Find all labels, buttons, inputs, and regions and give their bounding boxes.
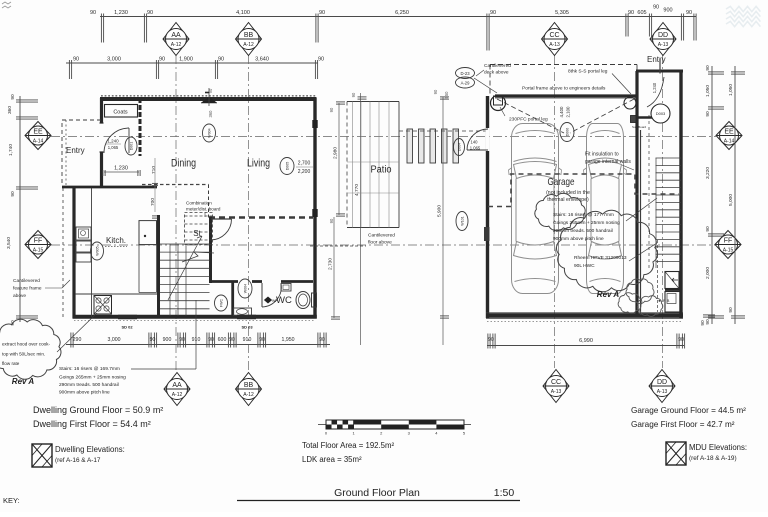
top wall load marker bbox=[201, 97, 217, 103]
svg-text:W005: W005 bbox=[96, 246, 100, 255]
stair note leaders bbox=[626, 198, 657, 221]
svg-text:2,700: 2,700 bbox=[298, 161, 311, 167]
svg-text:KEY:: KEY: bbox=[3, 496, 20, 505]
scale bar bbox=[318, 424, 471, 426]
svg-text:4,100: 4,100 bbox=[236, 10, 250, 16]
svg-text:MDU Elevations:: MDU Elevations: bbox=[689, 443, 747, 452]
svg-text:900: 900 bbox=[663, 8, 672, 14]
svg-text:deck above: deck above bbox=[484, 70, 509, 76]
dim 4770 bbox=[360, 93, 362, 345]
svg-text:meter/dist. board: meter/dist. board bbox=[186, 207, 221, 212]
car 1 bbox=[509, 124, 562, 294]
section line CC vertical bbox=[554, 55, 556, 368]
svg-text:D005: D005 bbox=[286, 162, 290, 171]
garage top right wall bbox=[636, 70, 683, 73]
section marker CC bottom bbox=[543, 370, 569, 403]
door tag 2 bbox=[237, 315, 256, 320]
svg-text:AA: AA bbox=[172, 382, 182, 389]
svg-text:90: 90 bbox=[208, 337, 214, 343]
svg-text:1:50: 1:50 bbox=[494, 487, 515, 499]
svg-text:90: 90 bbox=[259, 337, 265, 343]
svg-text:550: 550 bbox=[444, 91, 449, 99]
svg-text:DD: DD bbox=[657, 379, 667, 386]
dwelling top wall bbox=[100, 97, 317, 101]
detail circles D-23 A-29 bbox=[456, 68, 475, 79]
svg-text:90: 90 bbox=[90, 10, 96, 16]
garage wall pier bbox=[484, 227, 490, 241]
svg-text:Living: Living bbox=[247, 158, 270, 170]
door label D001 bbox=[125, 137, 137, 155]
svg-text:6,250: 6,250 bbox=[395, 10, 409, 16]
dwelling elevations legend bbox=[32, 444, 52, 467]
svg-text:A-12: A-12 bbox=[171, 42, 182, 48]
walkway bars bbox=[407, 129, 413, 163]
svg-text:90: 90 bbox=[488, 337, 494, 343]
svg-text:D006: D006 bbox=[566, 128, 570, 137]
svg-text:600: 600 bbox=[218, 337, 227, 343]
door tag 1 bbox=[118, 315, 137, 320]
garage right wall bbox=[679, 71, 682, 318]
svg-text:A-13: A-13 bbox=[657, 389, 668, 395]
svg-text:D004: D004 bbox=[458, 143, 462, 152]
section marker BB top bbox=[236, 23, 262, 56]
fridge bbox=[139, 221, 157, 245]
svg-text:5,000: 5,000 bbox=[728, 194, 734, 206]
wc cistern bbox=[281, 284, 291, 292]
floor above heavy dashed bbox=[209, 216, 313, 218]
vanity bbox=[234, 308, 252, 316]
garage strip rooms bbox=[665, 272, 679, 289]
svg-text:90: 90 bbox=[700, 320, 706, 326]
svg-text:Cantilevered: Cantilevered bbox=[368, 233, 395, 239]
svg-text:Goings 265mm + 25mm nosing: Goings 265mm + 25mm nosing bbox=[553, 220, 620, 226]
svg-text:90: 90 bbox=[329, 218, 334, 223]
svg-text:Stairs: 16 risers @ 177.7mm: Stairs: 16 risers @ 177.7mm bbox=[553, 212, 614, 218]
section marker EE left bbox=[25, 122, 51, 150]
svg-text:3,220: 3,220 bbox=[705, 167, 711, 179]
svg-text:floor above: floor above bbox=[368, 240, 392, 246]
right outer dimension line bbox=[734, 66, 736, 324]
svg-text:Combination: Combination bbox=[186, 201, 212, 206]
section marker CC top bbox=[542, 23, 568, 56]
svg-text:2,000: 2,000 bbox=[705, 267, 711, 279]
svg-text:Kitch.: Kitch. bbox=[106, 236, 126, 245]
svg-text:A-12: A-12 bbox=[243, 392, 254, 398]
svg-text:A-12: A-12 bbox=[243, 42, 254, 48]
dwelling left wall upper bbox=[100, 98, 103, 186]
svg-text:90: 90 bbox=[705, 111, 711, 117]
garage entry oval bbox=[651, 104, 670, 123]
portal leg circle left bbox=[491, 96, 506, 111]
dim 2730 bbox=[333, 217, 335, 318]
cantilevered deck dashed bbox=[490, 65, 637, 96]
svg-text:A-13: A-13 bbox=[551, 389, 562, 395]
mdu elevations legend bbox=[666, 442, 686, 465]
svg-text:4,770: 4,770 bbox=[354, 184, 360, 196]
wc wp diamond bbox=[265, 297, 272, 303]
shrubs bbox=[626, 279, 654, 304]
garage door label oval bbox=[560, 123, 574, 142]
garage bracing dashed bbox=[497, 99, 564, 133]
svg-text:CC: CC bbox=[551, 379, 561, 386]
svg-text:Dwelling Ground Floor = 50.9: Dwelling Ground Floor = 50.9 m² bbox=[33, 405, 163, 415]
section marker FF left bbox=[25, 231, 51, 259]
svg-text:2,100: 2,100 bbox=[566, 106, 571, 118]
svg-text:900: 900 bbox=[163, 337, 172, 343]
svg-text:1,065: 1,065 bbox=[108, 145, 119, 150]
svg-text:D003: D003 bbox=[656, 111, 666, 116]
svg-text:EE: EE bbox=[724, 128, 734, 135]
svg-text:A-13: A-13 bbox=[549, 42, 560, 48]
svg-text:90L HWC: 90L HWC bbox=[574, 263, 595, 269]
svg-text:W101: W101 bbox=[461, 216, 465, 225]
toilet bbox=[296, 292, 310, 309]
svg-text:1,240: 1,240 bbox=[107, 139, 119, 144]
svg-text:6,990: 6,990 bbox=[579, 338, 593, 344]
svg-text:3,000: 3,000 bbox=[107, 57, 121, 63]
svg-text:290mm treads. 500 handrail: 290mm treads. 500 handrail bbox=[553, 228, 613, 234]
svg-text:90: 90 bbox=[229, 337, 235, 343]
wc door bbox=[261, 283, 263, 307]
dim 5900 bbox=[442, 97, 444, 345]
svg-text:3,640: 3,640 bbox=[255, 57, 269, 63]
svg-text:8thk S-S portal leg: 8thk S-S portal leg bbox=[568, 69, 608, 75]
svg-text:90: 90 bbox=[73, 57, 79, 63]
svg-text:Coats: Coats bbox=[113, 110, 128, 116]
svg-text:910: 910 bbox=[243, 337, 252, 343]
svg-text:DD: DD bbox=[658, 32, 668, 39]
svg-text:90: 90 bbox=[159, 57, 165, 63]
svg-text:P B: P B bbox=[663, 298, 670, 303]
svg-text:St: St bbox=[193, 229, 201, 238]
entry porch dashed outline bbox=[62, 120, 101, 186]
svg-text:360: 360 bbox=[7, 106, 13, 114]
kitchen counter line bbox=[91, 188, 93, 317]
svg-text:FWC: FWC bbox=[220, 299, 224, 308]
entry-dining wall bbox=[139, 98, 142, 156]
svg-text:LDK area = 35m²: LDK area = 35m² bbox=[302, 455, 362, 464]
corner mark bbox=[2, 2, 11, 8]
label D005 with dims bbox=[280, 158, 294, 175]
svg-text:thermal envelope): thermal envelope) bbox=[547, 197, 589, 203]
svg-text:WC: WC bbox=[276, 295, 292, 306]
svg-text:1,950: 1,950 bbox=[282, 337, 295, 343]
window tag A bbox=[456, 212, 468, 231]
svg-text:A-15: A-15 bbox=[33, 248, 44, 254]
svg-text:Entry: Entry bbox=[647, 55, 666, 64]
svg-text:700: 700 bbox=[150, 198, 156, 206]
svg-text:90: 90 bbox=[318, 57, 324, 63]
svg-text:3,540: 3,540 bbox=[6, 237, 12, 249]
section marker BB bottom bbox=[236, 373, 262, 406]
garage floor above dashed bbox=[488, 174, 679, 207]
svg-text:1,900: 1,900 bbox=[179, 57, 193, 63]
walkway dashed line bbox=[399, 130, 486, 132]
svg-text:SD 02: SD 02 bbox=[121, 325, 133, 330]
svg-text:FF: FF bbox=[34, 237, 43, 244]
svg-text:Rheem HPVE 31209013: Rheem HPVE 31209013 bbox=[574, 255, 627, 261]
garage left wall door gap bbox=[486, 128, 490, 151]
floor above dashed line bbox=[142, 184, 209, 186]
svg-text:90: 90 bbox=[218, 57, 224, 63]
svg-text:WP: WP bbox=[272, 299, 278, 303]
svg-text:290: 290 bbox=[73, 337, 82, 343]
extract hood cloud bbox=[0, 319, 61, 379]
svg-text:garage internal walls: garage internal walls bbox=[585, 159, 631, 165]
garage portal beam bbox=[495, 94, 636, 97]
right inner dimension line bbox=[711, 66, 713, 324]
section marker DD bottom bbox=[649, 370, 675, 403]
garage strip wall bbox=[640, 130, 642, 315]
car 2 bbox=[584, 124, 627, 294]
svg-text:90: 90 bbox=[628, 10, 634, 16]
svg-text:900mm above pitch line: 900mm above pitch line bbox=[553, 236, 604, 242]
svg-text:90: 90 bbox=[10, 191, 16, 197]
svg-text:290mm treads. 500 handrail: 290mm treads. 500 handrail bbox=[59, 382, 119, 388]
svg-text:Patio: Patio bbox=[371, 165, 392, 176]
garage entry door bbox=[659, 59, 661, 74]
svg-text:extract hood over cook-: extract hood over cook- bbox=[2, 342, 50, 347]
svg-text:1,240: 1,240 bbox=[652, 82, 657, 93]
svg-text:90: 90 bbox=[150, 337, 156, 343]
svg-text:W004: W004 bbox=[208, 128, 212, 137]
svg-text:Dwelling Elevations:: Dwelling Elevations: bbox=[55, 445, 125, 454]
coats closet bbox=[105, 105, 138, 118]
kitchen fixtures bbox=[76, 227, 91, 240]
svg-text:90: 90 bbox=[433, 89, 438, 94]
svg-text:EE: EE bbox=[33, 128, 43, 135]
svg-text:Stairs: 16 risers @ 169.7mm: Stairs: 16 risers @ 169.7mm bbox=[59, 366, 120, 372]
svg-text:Cantilevered: Cantilevered bbox=[13, 278, 40, 284]
svg-text:A-13: A-13 bbox=[658, 42, 669, 48]
svg-text:(ref A-16 & A-17: (ref A-16 & A-17 bbox=[55, 457, 101, 464]
right 90 tick bbox=[703, 314, 715, 316]
wc label oval 1 bbox=[238, 279, 252, 298]
svg-text:D001: D001 bbox=[130, 142, 134, 151]
svg-text:90: 90 bbox=[179, 337, 185, 343]
svg-text:3,000: 3,000 bbox=[108, 337, 121, 343]
cooktop bbox=[94, 296, 112, 315]
svg-text:5,900: 5,900 bbox=[437, 205, 443, 217]
dwelling entry-kitchen wall bbox=[62, 186, 157, 189]
svg-text:Dining: Dining bbox=[171, 158, 196, 170]
svg-text:AA: AA bbox=[171, 32, 181, 39]
svg-text:2,200: 2,200 bbox=[298, 169, 311, 175]
svg-text:1,050: 1,050 bbox=[728, 84, 734, 96]
bottom dimension dwelling bbox=[66, 344, 330, 346]
svg-text:feature frame: feature frame bbox=[13, 286, 42, 292]
garage mid wall bbox=[635, 71, 638, 315]
svg-text:1,740: 1,740 bbox=[8, 144, 14, 156]
section marker FF right bbox=[715, 231, 741, 259]
portal leg circle right bbox=[624, 97, 636, 109]
entry door arc bbox=[104, 128, 129, 153]
svg-text:1,230: 1,230 bbox=[114, 10, 128, 16]
section marker EE right bbox=[716, 122, 742, 150]
svg-text:90: 90 bbox=[653, 5, 659, 11]
svg-text:Total Floor Area = 192.5m²: Total Floor Area = 192.5m² bbox=[302, 441, 394, 450]
top dimension line 2 bbox=[66, 62, 318, 64]
svg-text:flow rate: flow rate bbox=[2, 361, 20, 366]
svg-text:Garage: Garage bbox=[548, 176, 575, 188]
svg-text:90: 90 bbox=[147, 10, 153, 16]
svg-text:Fit insulation to: Fit insulation to bbox=[585, 152, 619, 158]
svg-text:90: 90 bbox=[10, 94, 16, 100]
section line EE horizontal bbox=[51, 136, 716, 138]
svg-text:Sub Board: Sub Board bbox=[632, 125, 647, 129]
top dimension line 1 bbox=[100, 16, 696, 18]
bottom dimension garage bbox=[487, 345, 684, 347]
svg-text:A-29: A-29 bbox=[461, 81, 471, 86]
svg-text:Goings 265mm + 25mm nosing: Goings 265mm + 25mm nosing bbox=[59, 375, 126, 381]
waves logo bbox=[726, 6, 760, 26]
svg-text:Entry: Entry bbox=[66, 146, 85, 155]
garage bottom wall bbox=[486, 313, 683, 317]
svg-text:4,400: 4,400 bbox=[559, 106, 564, 118]
svg-text:710: 710 bbox=[151, 166, 157, 174]
svg-text:900mm above pitch line: 900mm above pitch line bbox=[59, 390, 110, 396]
window label W004 bbox=[203, 124, 216, 142]
svg-text:above: above bbox=[13, 293, 26, 299]
svg-text:90: 90 bbox=[329, 107, 334, 112]
section marker AA top bbox=[163, 23, 189, 56]
dwelling bottom wall bbox=[73, 315, 317, 319]
svg-text:Dwelling First Floor = 5: Dwelling First Floor = 54.4 m² bbox=[33, 419, 151, 429]
svg-text:Rev A: Rev A bbox=[597, 290, 620, 299]
section marker AA bottom bbox=[164, 373, 190, 406]
svg-text:90: 90 bbox=[705, 65, 711, 71]
stairs bbox=[157, 215, 160, 318]
svg-text:Cantilevered: Cantilevered bbox=[484, 63, 511, 69]
svg-text:A-14: A-14 bbox=[33, 139, 44, 145]
revision cloud bbox=[556, 210, 657, 292]
garage left wall bbox=[486, 96, 489, 318]
sub board bbox=[631, 116, 637, 123]
svg-text:Garage Ground Floor = 44.5 m²: Garage Ground Floor = 44.5 m² bbox=[631, 406, 746, 415]
svg-text:D-23: D-23 bbox=[460, 71, 470, 76]
dwelling kitchen left wall bbox=[72, 186, 75, 318]
svg-text:90: 90 bbox=[319, 337, 325, 343]
svg-text:BB: BB bbox=[244, 382, 254, 389]
svg-text:Rev A: Rev A bbox=[12, 377, 35, 386]
svg-text:CC: CC bbox=[549, 32, 559, 39]
section line FF horizontal bbox=[51, 244, 716, 246]
garage stairs bbox=[656, 157, 682, 159]
svg-text:Ground Floor Plan: Ground Floor Plan bbox=[334, 487, 420, 499]
dim 2980 bbox=[338, 103, 340, 215]
svg-text:90: 90 bbox=[351, 92, 356, 97]
svg-text:BB: BB bbox=[244, 32, 254, 39]
section marker DD top bbox=[650, 23, 676, 56]
svg-text:1,050: 1,050 bbox=[705, 85, 711, 97]
svg-text:A-12: A-12 bbox=[172, 392, 183, 398]
svg-text:1,230: 1,230 bbox=[114, 166, 128, 172]
svg-text:90: 90 bbox=[490, 10, 496, 16]
svg-text:FF: FF bbox=[724, 237, 733, 244]
left dimension line bbox=[19, 96, 21, 322]
section line BB vertical bbox=[248, 55, 250, 372]
svg-text:605: 605 bbox=[637, 10, 646, 16]
section line AA vertical bbox=[175, 55, 177, 372]
wc walls bbox=[211, 280, 238, 283]
svg-text:90: 90 bbox=[319, 10, 325, 16]
svg-text:2,980: 2,980 bbox=[333, 147, 339, 159]
svg-text:top with 50L/sec min.: top with 50L/sec min. bbox=[2, 352, 45, 357]
svg-text:90: 90 bbox=[705, 226, 711, 232]
svg-text:90: 90 bbox=[686, 10, 692, 16]
feature frame dashed bbox=[62, 188, 64, 317]
svg-text:90: 90 bbox=[678, 337, 684, 343]
svg-text:(ref A-18 & A-19): (ref A-18 & A-19) bbox=[689, 455, 737, 462]
svg-text:2,730: 2,730 bbox=[328, 258, 334, 270]
svg-text:A-14: A-14 bbox=[724, 139, 735, 145]
walkway door label bbox=[454, 139, 465, 156]
svg-text:140: 140 bbox=[471, 140, 479, 145]
svg-text:SD 03: SD 03 bbox=[241, 325, 253, 330]
svg-text:Garage First Floor = 42.: Garage First Floor = 42.7 m² bbox=[631, 420, 735, 429]
svg-text:90: 90 bbox=[728, 307, 734, 313]
svg-text:W004: W004 bbox=[244, 284, 248, 293]
svg-text:A-15: A-15 bbox=[723, 248, 734, 254]
kitchen label circle W005 bbox=[91, 242, 104, 260]
svg-text:5,305: 5,305 bbox=[555, 10, 569, 16]
section line DD vertical bbox=[662, 55, 664, 368]
patio deck bbox=[347, 102, 399, 228]
wc label oval 2 bbox=[215, 295, 228, 311]
stair door bbox=[211, 218, 232, 220]
svg-text:360: 360 bbox=[208, 110, 213, 118]
svg-text:Portal frame above to engineer: Portal frame above to engineers details bbox=[522, 86, 606, 92]
dwelling right wall bbox=[313, 98, 316, 318]
